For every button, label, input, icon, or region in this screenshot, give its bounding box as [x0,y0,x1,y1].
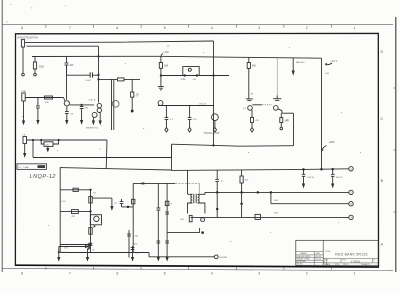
transistor Q9 [94,216,99,221]
drawing frame border [15,33,378,266]
-12V arrow [322,146,327,151]
ground arrow C4 [66,121,68,124]
wire net W2 [27,45,99,47]
fan wire net A [172,169,349,171]
junction dot bus1 [90,211,91,212]
wire net W3 [32,56,322,58]
wire net N6 [33,157,172,159]
junction dot fanB1 [241,192,243,194]
scan specks [6,4,66,22]
pcb note box [17,164,47,170]
Q7 base wire [252,104,272,106]
wire base link [122,206,134,208]
bottom wire right [149,256,214,258]
svg-text:2: 2 [306,26,308,30]
svg-text:1/1: 1/1 [337,264,339,266]
terminal circle B [349,190,353,194]
terminal J2 [34,73,37,76]
stub x111.9 [111,198,113,209]
Q2 leads [93,112,100,121]
junction dot fanB2 [270,192,272,194]
junction dot base link [127,206,129,208]
coil T1 [22,93,25,101]
capacitor C1 [65,56,69,75]
wire net N2 [25,97,63,99]
antenna E1 [21,40,24,47]
wire x270.9 [270,192,272,203]
wire net N3 [70,104,94,106]
wire collector link [282,112,294,114]
transistor Q3 [97,103,101,107]
resistor R2 [45,96,53,99]
junction dot bus2 [90,244,91,245]
ground arrow T1 [23,121,25,124]
capacitor C13 [157,241,161,243]
lower block left edge [59,167,61,252]
svg-text:8: 8 [21,271,23,275]
junction dot FL1 pin2 [196,75,198,77]
svg-text:170551: 170551 [351,259,361,263]
pcb note stamp [38,165,46,168]
wire N5 left drop [32,140,34,158]
terminal circle T2 [201,218,205,222]
svg-text:1: 1 [353,26,355,30]
capacitor C10 [131,248,135,250]
part number [324,260,376,266]
junction dot FL1 pin1 [184,75,186,77]
ground arrow C10 [132,258,134,261]
lower block top edge [60,168,171,170]
Q6 lead [214,121,216,128]
svg-text:5: 5 [164,271,166,275]
junction dot [98,56,99,57]
audio bus vertical [90,190,92,253]
bottom ruler line [2,268,393,270]
frame bottom heavy line [15,265,379,267]
transistor Q1 [64,101,69,106]
svg-text:5: 5 [164,26,166,30]
resistor R4 [159,56,162,75]
top ruler line [2,24,393,26]
svg-text:DRAWN: DRAWN [300,252,307,255]
capacitor C8 [89,243,93,245]
svg-text:OSC B: OSC B [89,100,96,102]
transistor Q7 [248,106,253,111]
dot left [58,251,60,253]
junction dot N5 [32,139,33,140]
wire vertical x98 [98,46,100,102]
transformer T2 secondary [198,194,199,203]
ground G2 [273,96,281,101]
junction dot x217-B [216,192,218,194]
coil L2 [89,228,92,235]
svg-text:10-4-58: 10-4-58 [315,259,321,261]
wire link corner [199,228,201,233]
junction dot R7a [41,139,42,140]
output terminal J3 [214,255,218,259]
svg-text:RED BANK 5R125: RED BANK 5R125 [335,252,367,256]
transistor Q5 [158,101,163,106]
ground arrow C3 [37,121,39,124]
Q7 lead [251,110,253,118]
wire net W1 [25,41,214,43]
junction dot fanA2 [332,168,334,170]
svg-text:PC - 70 AVI: PC - 70 AVI [18,166,29,169]
junction dot M1-x213 [213,145,214,146]
junction dot row1 [90,189,91,190]
wire net N5 [27,139,108,141]
fan wire net D [191,216,349,218]
Q8 collector link [278,109,282,113]
wire x171.5 lower drop [171,145,173,171]
coil L1 [89,196,92,203]
svg-text:TR: TR [93,193,96,195]
mid block left vertical [132,183,134,252]
ground diamond Q6 [213,128,216,133]
ground G3 [246,90,253,101]
junction dot R7b [58,139,59,140]
ground arrow C5 [81,121,83,124]
mid block top wire [133,182,175,184]
transistor Q4 [112,100,119,107]
wire osc rail [161,75,229,77]
Q1 leads [64,98,67,111]
junction dot fanA3 [321,168,323,170]
svg-text:SHEET 1: SHEET 1 [363,264,370,266]
wire x187 up [187,170,189,194]
speaker wire [59,246,88,248]
mid top wire ext [175,182,199,184]
junction dot R4 [160,75,161,76]
svg-text:600 W: 600 W [336,177,343,179]
bottom zone numbers [21,271,355,275]
wire E1 down [22,47,24,73]
svg-text:7: 7 [69,26,71,30]
svg-text:100uF: 100uF [62,252,69,254]
wire node N1 [67,74,99,76]
junction dot fanD1 [241,203,243,205]
terminal circle A [349,167,353,171]
svg-text:SCALE: SCALE [325,263,331,266]
svg-text:6: 6 [116,26,118,30]
coupling wire x217 [216,170,218,217]
junction dot N3 [81,104,82,105]
capacitor C4 [65,110,69,121]
resistor R3 [131,79,134,110]
svg-text:220K: 220K [39,66,45,68]
terminal circle D [349,215,353,219]
resistor R6 [280,113,283,127]
terminal dot R3 [131,110,133,112]
Q9 dot [94,226,96,228]
ground G1 [158,76,164,90]
terminal circle C [349,202,353,206]
wire jog x171.5 [171,144,173,157]
svg-text:LNQP-12: LNQP-12 [30,174,57,180]
ground arrow Q2 [92,121,94,124]
svg-text:+12 V: +12 V [331,59,338,63]
right zone letters [380,50,383,246]
tick marks mid [142,182,144,184]
svg-text:TRACED JONES: TRACED JONES [297,258,311,261]
+12V arrow [161,54,163,57]
IF box left inner [113,79,115,130]
T2 secondary leads [198,192,205,213]
title block main divider [322,240,324,265]
capacitor C2 [90,72,92,77]
ground arrow R7 [47,146,49,151]
svg-text:APPROVED: APPROVED [297,260,307,263]
dot link [202,232,204,234]
capacitor C12 [165,212,169,214]
transistor Q3b [97,108,101,112]
resistor R15 [251,117,254,127]
IF verticals pair [158,183,167,256]
bias wire row3 [60,244,90,246]
transistor Q8 [274,106,279,111]
transformer T2 core [194,194,196,203]
capacitor C16 [215,179,219,182]
svg-text:TITLE: TITLE [325,251,331,253]
IF box left side [111,79,113,130]
transistor Q2 [92,112,97,117]
wire net N4 [99,78,141,80]
bottom wire step [148,253,150,257]
wire down left [58,247,60,258]
svg-text:10K: 10K [45,102,49,104]
resistor R5 [247,57,250,90]
title block outline [296,240,379,265]
wire upper link [167,232,200,234]
bias wire row1 [60,189,90,191]
junction dot fanB3 [257,192,259,194]
T2 primary leads [188,194,193,213]
wire N5 drop x107 [105,140,108,169]
mid top drop [198,183,200,193]
scan edge line left [1,0,3,272]
svg-text:2: 2 [306,271,308,275]
junction dot [98,74,99,75]
right margin ticks [394,88,396,212]
bias wire row2 [60,210,90,212]
svg-text:TR: TR [136,94,139,96]
title block lower rules [323,259,378,266]
svg-text:3: 3 [258,271,260,275]
svg-text:7: 7 [69,271,71,275]
wire M1 corner up [293,113,295,146]
terminal circle R6 [280,127,283,130]
wire down mid [87,249,89,258]
speaker element M1 [88,244,89,251]
capacitor C3 [36,98,40,121]
wire down x132 [132,246,134,258]
svg-text:3: 3 [258,26,260,30]
svg-text:D: D [380,50,383,54]
svg-text:8: 8 [21,26,23,30]
wire vertical x321 [321,58,323,169]
svg-text:PHONE: PHONE [219,257,227,259]
capacitor C6 [165,106,169,128]
capacitor C7 [188,106,192,128]
svg-text:ISSUED: ISSUED [297,264,304,266]
svg-text:MIXER OSC: MIXER OSC [86,128,99,130]
ground arrow Q3 [99,121,101,124]
svg-text:XTAL: XTAL [181,78,187,81]
junction dot x217-mid [216,208,218,210]
crystal Y1 [23,137,27,144]
svg-text:BAL 600: BAL 600 [296,61,305,64]
capacitor C15 [120,199,124,207]
junction dot fanA1 [303,169,305,171]
svg-text:1: 1 [353,271,355,275]
choke L4 [189,215,192,221]
svg-text:+28V: +28V [329,140,335,144]
svg-text:*OSCILLATOR*: *OSCILLATOR* [204,132,220,135]
fan wire net C [271,203,349,205]
wire base row [92,197,112,199]
transistor Q6 [212,114,219,121]
ground diamond C6 [165,128,168,133]
attenuator Z1 [255,214,261,219]
volume tap 2 [331,169,335,187]
svg-text:+12V: +12V [163,51,169,54]
top ruler ticks [46,25,332,28]
svg-text:OSC B: OSC B [199,104,206,106]
resistor R1 [33,56,36,73]
transformer T2 primary [191,194,192,203]
revision table rules [296,252,323,266]
trimmer arrow [292,58,294,74]
svg-text:4.7K: 4.7K [61,201,66,203]
junction dot x213 [213,75,214,76]
+12V arrow right [325,63,332,65]
lower block bottom wire [60,252,149,254]
wire Y1 down [24,144,26,154]
top zone numbers [21,26,355,30]
svg-text:M: M [93,250,95,252]
FL1 crystal dot [188,68,191,71]
svg-text:6: 6 [116,271,118,275]
resistor R7 [44,142,53,147]
resistor R12 [127,230,131,258]
svg-text:600 W: 600 W [308,177,315,179]
svg-text:4: 4 [211,271,213,275]
transistor Q9 box [90,215,101,225]
capacitor C5 [80,105,84,121]
ground arrow IF1 [157,258,159,261]
resistor R14 [165,201,169,205]
wire vertical x213 [213,41,215,145]
wire osc row [158,105,214,107]
bottom ruler ticks [46,267,332,270]
wire T1 down [23,101,25,121]
svg-text:0.047: 0.047 [86,80,92,82]
resistor R8 [73,188,78,191]
svg-text:RADIOTELEFON: RADIOTELEFON [18,36,38,40]
capacitor C14 [165,241,169,243]
resistor R13 [240,170,243,218]
svg-text:WT: WT [345,264,348,266]
wire Q1 branch [66,65,68,100]
scan edge line right [395,17,397,272]
revision table text [297,252,321,266]
ground arrow IF2 [166,258,168,261]
svg-text:C: C [380,117,383,121]
ground diamond Q7 [250,128,253,133]
resistor R9 [72,210,79,214]
resistor R16 [118,78,125,81]
scan speckle [22,46,361,242]
volume tap 1 [302,169,306,187]
ground arrow Y1 [24,154,26,157]
fan wire net B [205,191,349,193]
resistor R7 loop [41,140,58,144]
coil L3 [132,199,135,204]
svg-text:4: 4 [211,26,213,30]
wire x278 [276,58,278,96]
capacitor C11 [157,208,161,210]
oscillator can FL1 [183,67,199,76]
terminal J1 [22,73,25,76]
ground arrow bm [87,258,89,261]
ground arrow bl [58,258,60,261]
junction dot y79 [98,79,99,80]
wire net M1 [172,144,294,146]
ground diamond C7 [188,128,191,133]
